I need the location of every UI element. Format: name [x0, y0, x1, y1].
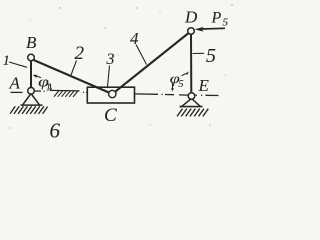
joint D — [188, 28, 195, 35]
svg-text:E: E — [198, 76, 210, 95]
angle down-arrow at A — [49, 84, 52, 92]
link 4 (rod C-D) — [112, 32, 190, 95]
angle down-arrow at E — [171, 83, 174, 92]
joint E — [188, 93, 195, 100]
svg-text:6: 6 — [50, 119, 61, 143]
link 1 (crank A-B) — [30, 60, 32, 89]
link 5 (crank D-E) — [190, 33, 192, 94]
svg-text:5: 5 — [206, 45, 216, 67]
slider block 3 — [87, 87, 134, 103]
svg-text:4: 4 — [130, 29, 139, 48]
svg-text:P: P — [211, 10, 222, 27]
angle arrow at A (points to link 1) — [33, 75, 41, 79]
support triangle at E — [182, 99, 201, 107]
link 2 (rod B-C) — [33, 60, 113, 95]
wire: dash-dot guide line left of A — [11, 91, 23, 93]
svg-text:D: D — [184, 8, 198, 27]
svg-text:5: 5 — [223, 17, 229, 29]
ground hatching middle guide — [54, 91, 78, 97]
svg-text:A: A — [9, 74, 21, 93]
wire: dash-dot guide line right of E — [196, 94, 219, 96]
joint A — [28, 88, 35, 95]
svg-text:5: 5 — [179, 79, 184, 90]
force P5 arrow at D — [195, 27, 225, 32]
svg-text:B: B — [26, 33, 37, 52]
ground hatching at A — [10, 105, 47, 114]
joint C (pin in slider) — [109, 90, 116, 97]
svg-text:C: C — [104, 105, 117, 126]
support triangle at A — [22, 94, 39, 106]
svg-text:1: 1 — [3, 53, 11, 69]
angle up-arrow at E (points to link 5) — [182, 71, 190, 75]
ground hatching at E — [177, 107, 208, 117]
joint B — [28, 54, 35, 61]
wire: dash-dot guide line right of slider to E — [135, 94, 188, 95]
scan specks — [9, 4, 232, 128]
paper background — [0, 0, 241, 144]
wire: dash-dot guide line left of slider — [35, 90, 90, 92]
svg-text:3: 3 — [106, 51, 115, 68]
